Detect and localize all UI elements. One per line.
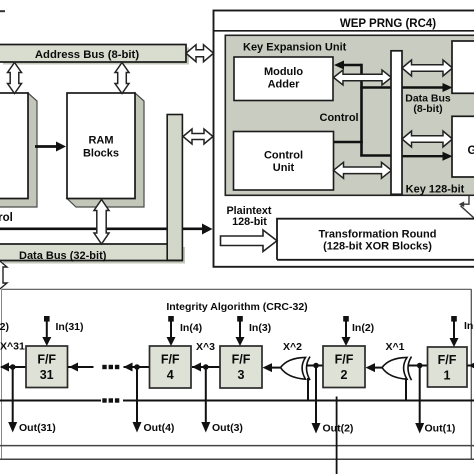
svg-text:Control: Control [264, 150, 303, 162]
svg-text:(128-bit XOR Blocks): (128-bit XOR Blocks) [323, 241, 432, 253]
wire: address bus to ram double arrow [115, 63, 129, 94]
wire: data bus diagonal arrow (cut at edge) [0, 259, 7, 291]
svg-text:2: 2 [341, 368, 348, 382]
wire: F/F 1 output to XOR X^1 [408, 365, 428, 367]
svg-text:Key Expansion Unit: Key Expansion Unit [243, 42, 347, 54]
wire: plaintext big arrow [221, 230, 278, 252]
wire: main line dots [102, 365, 119, 369]
wire: control to data bus lower [360, 154, 392, 156]
svg-text:F/F: F/F [37, 353, 56, 367]
svg-text:31: 31 [40, 368, 54, 382]
block: Key Expansion Unit [225, 35, 474, 195]
svg-text:Data Bus (32-bit): Data Bus (32-bit) [19, 250, 107, 262]
gate: XOR X^2 [281, 357, 311, 381]
svg-text:Out(3): Out(3) [212, 422, 243, 434]
wire: modulo adder to key bus double arrow [334, 70, 392, 85]
block: integrity frame bottom line 1 [0, 445, 474, 447]
wire: address bus to wep double arrow [186, 45, 214, 62]
wire: Out(1) tap [415, 366, 424, 434]
svg-text:Blocks: Blocks [83, 148, 119, 160]
svg-text:F/F: F/F [232, 353, 251, 367]
block: left processor box (cut at edge) [0, 93, 37, 207]
wire: In(31) input [42, 322, 51, 347]
svg-text:G: G [468, 145, 474, 157]
wire: key bus to right box2 double arrow [402, 131, 453, 147]
bus: vertical data bus bar [167, 115, 182, 261]
block: F/F 31 [26, 346, 68, 388]
wire: XOR X^2 output arrow into F/F 3 [263, 363, 281, 372]
wire: main shift line out of F/F 31 (cut at left) [0, 363, 26, 372]
wire: data bus bar to wep double arrow [183, 129, 213, 144]
wire: feedback line dots [102, 398, 119, 402]
wire: XOR X^1 lower input from feedback [405, 378, 407, 401]
svg-text:In(2): In(2) [352, 322, 374, 334]
wire: F/F 3 to F/F 4 with arrow [192, 363, 220, 372]
node: junction Out(31) [10, 364, 16, 370]
node: junction Out(3) [203, 364, 209, 370]
block: integrity frame bottom line 2 [0, 458, 474, 460]
svg-text:3: 3 [238, 368, 245, 382]
svg-text:Control: Control [320, 112, 359, 124]
svg-text:Out(1): Out(1) [425, 423, 456, 435]
svg-text:Key 128-bit: Key 128-bit [406, 184, 465, 196]
node: In(4) terminal [168, 316, 174, 322]
node: In(3) terminal [237, 316, 243, 322]
svg-text:4: 4 [167, 368, 174, 382]
block: RAM Blocks [67, 93, 144, 207]
node: Data Bus (8-bit) label [405, 93, 451, 116]
node: In(2) terminal [343, 316, 349, 322]
svg-text:Out(4): Out(4) [144, 422, 175, 434]
wire: Out(3) tap [201, 367, 210, 433]
bus: Address Bus (8-bit) [0, 45, 189, 65]
wire: left box to ram black arrow [35, 142, 66, 152]
block: F/F 4 [150, 346, 192, 388]
svg-text:F/F: F/F [438, 353, 457, 367]
block: right box 2 G... (cut at edge) [452, 116, 474, 177]
bus: key 128-bit vertical bus bar [391, 51, 402, 195]
wire: XOR X^2 lower input from feedback [307, 378, 309, 401]
block: F/F 3 [220, 346, 262, 388]
svg-text:In(3): In(3) [249, 322, 271, 334]
wire: Out(4) tap [133, 367, 142, 433]
wire: black arrow into right box 1 [401, 83, 453, 92]
wire: F/F 4 to F/F 31 with arrow [68, 363, 94, 372]
svg-text:F/F: F/F [335, 353, 354, 367]
svg-text:Out(2): Out(2) [323, 423, 354, 435]
block: right box 1 (cut at edge) [452, 41, 474, 93]
svg-text:X^3: X^3 [196, 341, 215, 353]
svg-text:F/F: F/F [161, 353, 180, 367]
wire: control line to wep prng [0, 224, 213, 235]
block: F/F 2 [323, 346, 365, 388]
svg-text:Control: Control [0, 212, 13, 224]
wire: segment into dots from F/F 4 [124, 363, 150, 372]
svg-text:Transformation Round: Transformation Round [319, 229, 437, 241]
wire: feedback line left segment [0, 400, 101, 402]
wire: control to data bus upper [360, 86, 392, 88]
svg-text:(8-bit): (8-bit) [413, 103, 442, 115]
wire: control vertical line [360, 64, 363, 157]
wire: In(2) input [342, 322, 351, 347]
block: integrity outer frame top [2, 288, 472, 290]
svg-text:128-bit: 128-bit [232, 216, 267, 228]
svg-text:Unit: Unit [273, 162, 295, 174]
node: junction Out(1) [417, 363, 423, 369]
svg-text:RAM: RAM [88, 135, 113, 147]
svg-text:WEP PRNG (RC4): WEP PRNG (RC4) [340, 18, 436, 30]
wire: F/F 2 bottom long vertical line [336, 397, 338, 474]
wire: top-left border fragment [0, 10, 5, 12]
block: integrity outer frame right [470, 289, 472, 459]
wire: F/F 2 output to XOR X^2 [306, 365, 323, 367]
block: WEP PRNG (RC4) outer box [214, 11, 474, 267]
wire: In(4) input [167, 322, 176, 347]
block: Transformation Round [277, 219, 474, 260]
wire: In(1) input [450, 322, 459, 348]
svg-text:In(32): In(32) [0, 321, 9, 333]
wire: XOR X^1 output arrow into F/F 2 [366, 363, 383, 372]
svg-text:Out(31): Out(31) [19, 422, 56, 434]
block: F/F 1 [428, 347, 468, 387]
svg-text:X^1: X^1 [386, 341, 405, 353]
svg-text:In(1): In(1) [464, 320, 474, 332]
node: Plaintext 128-bit label [226, 205, 271, 228]
wire: control unit to control line [334, 141, 363, 143]
wire: control unit to key bus double arrow [334, 162, 392, 178]
svg-text:In(4): In(4) [180, 322, 202, 334]
node: junction Out(4) [134, 364, 140, 370]
svg-text:X^31: X^31 [0, 341, 25, 353]
wire: Out(2) tap [312, 366, 321, 434]
node: junction Out(2) [313, 363, 319, 369]
svg-text:In(31): In(31) [56, 321, 84, 333]
wire: input into F/F 1 from right (cut at edge) [467, 361, 474, 370]
wire: control to modulo adder (arrow left) [334, 61, 362, 70]
wire: Out(31) tap [8, 367, 17, 433]
wire: black arrow into right box 2 [401, 152, 453, 161]
svg-text:Adder: Adder [268, 79, 301, 91]
svg-text:X^2: X^2 [283, 341, 302, 353]
wire: bent arrow key to transformation round [459, 196, 474, 219]
bus: Data Bus (32-bit) [0, 244, 185, 264]
wire: feedback line right segment [123, 400, 474, 402]
node: In(1) terminal [451, 316, 457, 322]
node: In(31) terminal [44, 316, 50, 322]
svg-text:1: 1 [444, 369, 451, 383]
wire: In(3) input [236, 322, 245, 347]
svg-text:Modulo: Modulo [264, 66, 303, 78]
wire: key bus to right box1 double arrow [402, 60, 453, 76]
gate: XOR X^1 [382, 357, 412, 381]
block: integrity outer frame left [1, 289, 3, 459]
wire: ram to data bus double arrow [94, 200, 109, 245]
wire: address bus to left box double arrow [8, 63, 22, 94]
block: Control Unit [234, 132, 334, 191]
svg-text:Integrity Algorithm (CRC-32): Integrity Algorithm (CRC-32) [166, 301, 307, 313]
svg-text:Address Bus (8-bit): Address Bus (8-bit) [35, 49, 139, 61]
block: Modulo Adder [234, 57, 333, 101]
